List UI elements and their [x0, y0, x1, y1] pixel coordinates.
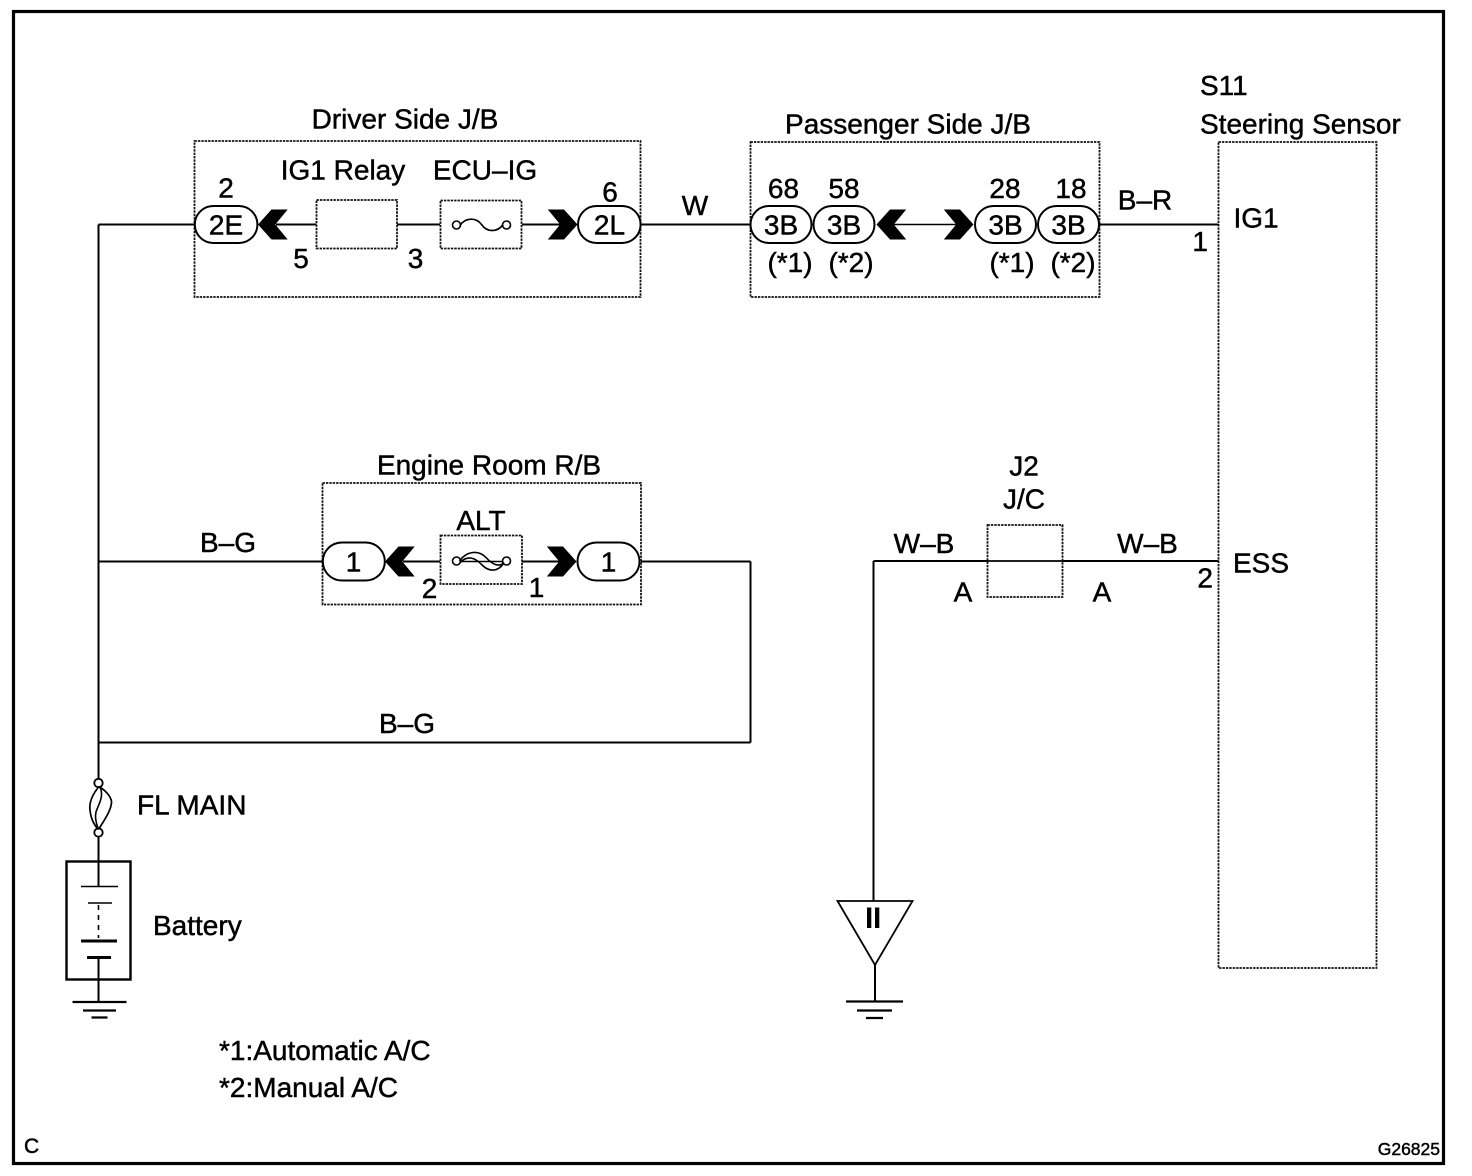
svg-text:68: 68 [768, 173, 799, 204]
svg-text:W–B: W–B [894, 528, 955, 559]
svg-text:S11: S11 [1200, 70, 1248, 101]
svg-text:W: W [682, 190, 709, 221]
svg-text:1: 1 [601, 547, 617, 578]
svg-text:B–R: B–R [1118, 185, 1172, 216]
svg-text:ECU–IG: ECU–IG [433, 155, 537, 186]
svg-text:2: 2 [1197, 563, 1213, 594]
svg-text:Driver Side J/B: Driver Side J/B [312, 104, 499, 135]
svg-text:6: 6 [602, 177, 618, 208]
svg-text:28: 28 [989, 173, 1020, 204]
svg-text:3: 3 [408, 243, 424, 274]
svg-text:C: C [24, 1135, 39, 1158]
svg-text:Passenger Side J/B: Passenger Side J/B [785, 109, 1031, 140]
svg-text:IG1 Relay: IG1 Relay [281, 155, 406, 186]
svg-text:(*2): (*2) [828, 247, 873, 278]
svg-text:ESS: ESS [1233, 548, 1289, 579]
svg-text:FL MAIN: FL MAIN [137, 790, 246, 821]
svg-text:ALT: ALT [456, 505, 505, 536]
svg-text:IG1: IG1 [1234, 203, 1279, 234]
svg-text:G26825: G26825 [1378, 1139, 1440, 1159]
svg-text:J/C: J/C [1003, 484, 1045, 515]
svg-text:Steering Sensor: Steering Sensor [1200, 109, 1401, 140]
svg-text:(*1): (*1) [989, 247, 1034, 278]
svg-text:18: 18 [1055, 173, 1086, 204]
svg-text:58: 58 [828, 173, 859, 204]
svg-text:5: 5 [293, 243, 309, 274]
svg-text:(*1): (*1) [767, 247, 812, 278]
svg-text:B–G: B–G [200, 527, 256, 558]
svg-text:3B: 3B [988, 210, 1022, 241]
svg-text:2L: 2L [594, 210, 625, 241]
svg-text:3B: 3B [764, 210, 798, 241]
svg-text:A: A [1093, 577, 1112, 608]
svg-text:2: 2 [218, 173, 234, 204]
svg-text:B–G: B–G [379, 708, 435, 739]
svg-text:(*2): (*2) [1050, 247, 1095, 278]
svg-text:A: A [954, 577, 973, 608]
svg-text:1: 1 [346, 547, 362, 578]
svg-text:1: 1 [529, 572, 545, 603]
svg-text:2E: 2E [209, 210, 243, 241]
svg-text:1: 1 [1192, 226, 1208, 257]
svg-text:W–B: W–B [1117, 528, 1178, 559]
svg-text:2: 2 [422, 573, 438, 604]
svg-text:J2: J2 [1009, 451, 1039, 482]
svg-text:3B: 3B [827, 210, 861, 241]
svg-text:Battery: Battery [153, 910, 242, 941]
svg-text:Engine Room R/B: Engine Room R/B [377, 450, 601, 481]
svg-text:*2:Manual A/C: *2:Manual A/C [219, 1072, 398, 1103]
svg-text:3B: 3B [1051, 210, 1085, 241]
svg-text:*1:Automatic A/C: *1:Automatic A/C [219, 1035, 431, 1066]
